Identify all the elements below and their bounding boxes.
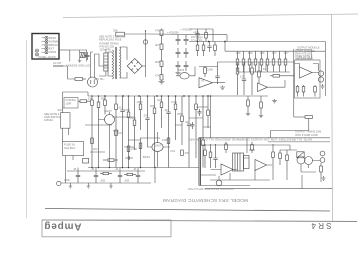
resistor R15	[278, 51, 281, 72]
reverb section enclosure left edge	[199, 138, 201, 186]
wire link2	[112, 116, 134, 118]
svg-text:115VAC: 115VAC	[44, 118, 53, 122]
svg-text:100K: 100K	[137, 100, 143, 104]
wire amp internal	[295, 64, 322, 77]
node I	[197, 41, 199, 43]
svg-text:.047: .047	[185, 120, 191, 124]
resistor R26	[91, 96, 94, 168]
node rail dots upper	[91, 95, 211, 97]
ground	[159, 80, 165, 84]
line filter block	[104, 53, 108, 71]
svg-text:PANEL JACKS: PANEL JACKS	[39, 55, 57, 59]
resistor R40	[78, 100, 90, 103]
capacitor C4	[184, 35, 189, 45]
resistor R41	[83, 159, 89, 164]
svg-text:12V: 12V	[240, 75, 245, 79]
resistor R38	[202, 96, 205, 168]
resistor R51	[260, 96, 263, 114]
title block box	[42, 220, 171, 237]
ground	[272, 99, 277, 103]
capacitor C15	[94, 171, 98, 183]
resistor R4	[160, 61, 163, 75]
jack J6	[36, 49, 39, 52]
resistor R2	[160, 29, 163, 45]
node rail dots	[91, 167, 156, 169]
wire filter leads	[99, 49, 106, 76]
ground	[175, 71, 180, 75]
node C	[104, 95, 106, 97]
svg-text:HTSINK REQ: HTSINK REQ	[297, 56, 313, 60]
svg-text:21.5V: 21.5V	[196, 36, 203, 40]
resistor R34	[160, 96, 163, 128]
svg-text:SPKR: SPKR	[49, 50, 56, 54]
resistor R9	[242, 51, 245, 72]
wire to reverb	[271, 118, 309, 137]
transistor Q3	[297, 156, 305, 164]
svg-text:BRIGHT: BRIGHT	[49, 43, 59, 47]
resistor R16	[284, 51, 287, 72]
op-amp U3	[300, 67, 313, 78]
resistor R58	[139, 143, 142, 149]
node bridge center	[134, 65, 136, 67]
resistor R6	[196, 42, 199, 57]
wire sub links	[189, 107, 211, 127]
wire U1 out	[213, 82, 226, 84]
page right edge	[332, 14, 333, 221]
resistor R61	[91, 138, 94, 144]
op-amp U2	[258, 83, 268, 92]
resistor R60	[181, 150, 184, 156]
svg-text:4K7: 4K7	[284, 51, 289, 55]
resistor R23	[302, 85, 305, 97]
wire top of caps	[67, 170, 145, 172]
reverb section enclosure top	[199, 137, 330, 139]
resistor R27	[97, 96, 100, 168]
svg-text:SR4: SR4	[309, 221, 331, 230]
plug prongs	[91, 80, 94, 84]
resistor R39	[207, 96, 210, 128]
ground	[220, 86, 225, 90]
ground	[259, 114, 263, 118]
op-amp U5	[255, 160, 267, 171]
node H	[207, 95, 209, 97]
svg-text:+24V: +24V	[193, 30, 199, 34]
resistor R19	[251, 62, 254, 95]
svg-text:+ 470/35V: + 470/35V	[167, 31, 179, 35]
wire preamp ground rail	[88, 167, 199, 169]
wire U4 leads	[211, 169, 238, 171]
resistor R25	[305, 116, 313, 119]
node G	[183, 95, 185, 97]
resistor R55	[75, 78, 86, 81]
svg-text:10K: 10K	[236, 51, 241, 55]
svg-text:4K7: 4K7	[155, 43, 160, 47]
resistor R62	[100, 172, 112, 174]
capacitor C22	[198, 109, 202, 116]
svg-text:VOLTAGES MEASURED WITH VTVM: VOLTAGES MEASURED WITH VTVM	[187, 187, 234, 191]
resistor R63	[124, 173, 136, 175]
wire R1 to rail	[124, 30, 150, 34]
ground lug	[109, 183, 113, 188]
resistor R50	[247, 96, 250, 112]
wire rail stubs	[78, 168, 138, 172]
wire B+ rail	[189, 42, 325, 97]
reverb section enclosure top inner	[268, 141, 330, 143]
svg-text:470K: 470K	[124, 108, 130, 112]
ground	[321, 84, 325, 88]
wire secondary top	[120, 47, 127, 60]
svg-text:470K: 470K	[131, 147, 137, 151]
svg-text:NOTE: ALL RESISTORS 1/2W 10% U: NOTE: ALL RESISTORS 1/2W 10% UNLESS OTHE…	[188, 137, 312, 141]
wire switch drop	[63, 92, 89, 142]
svg-text:1M: 1M	[88, 97, 92, 101]
capacitor C1	[176, 35, 181, 45]
tube V3	[152, 143, 163, 152]
node F	[156, 95, 158, 97]
wire line cord	[91, 52, 100, 78]
wire link1	[85, 124, 112, 126]
wire preamp B+ rail	[88, 95, 268, 97]
svg-text:.047: .047	[143, 114, 149, 118]
resistor R12	[260, 51, 263, 72]
resistor R8	[236, 51, 239, 72]
capacitor C6	[184, 61, 189, 71]
resistor R21	[270, 75, 295, 78]
resistor R35	[174, 96, 177, 140]
capacitor C9	[242, 62, 246, 95]
wire output stage	[280, 145, 320, 172]
jack J4	[45, 47, 48, 50]
power switch S1	[61, 113, 71, 129]
ground lug	[69, 183, 73, 188]
jack J2	[45, 40, 48, 43]
svg-text:.02: .02	[118, 106, 122, 110]
lamp DS1	[216, 180, 222, 186]
AC receptacle J8	[57, 181, 61, 185]
node E	[138, 95, 140, 97]
wire amp feed	[293, 49, 295, 117]
op-amp U1	[199, 78, 213, 88]
transformer T1 primary	[112, 50, 113, 79]
resistor R42	[204, 144, 207, 168]
output jack J10	[320, 158, 325, 163]
capacitor C17	[136, 171, 140, 183]
svg-text:6V: 6V	[263, 67, 266, 71]
transformer T1 secondary	[120, 47, 121, 78]
resistor R5	[160, 75, 163, 81]
capacitor C8	[215, 62, 219, 84]
wire top rail	[150, 34, 227, 42]
svg-text:250K: 250K	[130, 116, 136, 120]
capacitor C3	[176, 61, 181, 71]
svg-text:68K: 68K	[101, 97, 106, 101]
resistor R30	[127, 96, 130, 168]
svg-text:OUTPUT TRANS 22W: OUTPUT TRANS 22W	[295, 130, 322, 134]
jack J1	[45, 36, 48, 39]
resistor R48	[205, 29, 208, 42]
wire amp out down	[294, 116, 305, 118]
wire preamp to reverb	[210, 96, 212, 138]
transistor Q4	[305, 157, 313, 165]
wire AC run	[61, 182, 151, 184]
resistor R43	[209, 144, 212, 168]
page bottom rule	[42, 220, 357, 222]
power amp circuit box	[295, 60, 321, 98]
fuse holder box	[63, 142, 84, 156]
capacitor C18	[213, 144, 217, 168]
svg-text:.005: .005	[100, 179, 106, 183]
svg-text:470: 470	[155, 29, 160, 33]
capacitor C14	[76, 171, 80, 183]
svg-text:SW1: SW1	[58, 108, 64, 112]
svg-text:.005: .005	[124, 179, 130, 183]
svg-text:100R: 100R	[66, 103, 72, 106]
wire reverb wiring	[201, 138, 290, 180]
wire mains to primary	[99, 52, 112, 76]
capacitor C21	[125, 156, 133, 160]
svg-text:.01: .01	[91, 167, 95, 171]
ground	[246, 112, 250, 116]
jack tie marks	[42, 38, 46, 52]
resistor R37	[195, 96, 198, 158]
svg-text:NORMAL: NORMAL	[49, 39, 61, 43]
resistor R10	[248, 51, 251, 72]
driver block	[297, 152, 304, 158]
transistor Q2	[318, 77, 323, 82]
svg-text:EXT: EXT	[49, 47, 54, 51]
resistor R14	[272, 51, 275, 72]
resistor R13	[266, 51, 269, 72]
input panel box	[32, 34, 59, 60]
resistor R59	[167, 138, 170, 144]
capacitor C12	[166, 96, 170, 168]
svg-text:+ 470/35V: + 470/35V	[180, 28, 192, 32]
wire fuse leads	[66, 156, 74, 184]
svg-text:MODEL SR4 SCHEMATIC DIAGRAM: MODEL SR4 SCHEMATIC DIAGRAM	[163, 197, 248, 203]
capacitor C20	[86, 52, 90, 60]
svg-text:33K: 33K	[113, 29, 118, 33]
wire bridge plus	[142, 65, 145, 67]
ground lug	[87, 183, 91, 188]
resistor R11	[254, 51, 257, 72]
output jack J9	[320, 151, 325, 156]
wire drop to AC run	[154, 168, 156, 184]
wire filament drop	[70, 50, 87, 62]
svg-text:1M: 1M	[118, 131, 122, 135]
reverb section enclosure bottom	[199, 186, 332, 189]
svg-text:100K: 100K	[162, 138, 168, 142]
resistor R32	[139, 96, 142, 168]
wire panel output	[59, 49, 70, 51]
resistor R33	[153, 96, 156, 168]
wire secondary bottom	[120, 72, 127, 78]
ground	[322, 176, 326, 180]
svg-text:GND: GND	[64, 178, 70, 182]
bias network box	[64, 98, 78, 109]
capacitor C19	[195, 29, 199, 42]
wire rail2 drop	[224, 42, 226, 52]
resistor R3	[160, 44, 163, 61]
node A	[208, 41, 210, 43]
capacitor C23	[191, 122, 195, 129]
resistor R49	[214, 42, 217, 57]
wire mid links	[90, 125, 182, 152]
transistor Q1	[318, 71, 323, 76]
rectifier bridge D1-D4	[127, 59, 142, 74]
page top edge	[63, 14, 358, 18]
schematic frame bottom border	[45, 209, 330, 212]
wire V3 leads	[148, 132, 171, 168]
resistor R56	[115, 130, 118, 136]
resistor R54	[103, 159, 118, 162]
svg-text:470K: 470K	[171, 100, 177, 104]
wire V2 leads	[99, 112, 110, 168]
jack J7	[36, 53, 39, 56]
resistor R18	[236, 62, 239, 95]
resistor R31	[133, 96, 136, 150]
resistor R24	[314, 85, 317, 97]
svg-text:47K: 47K	[185, 151, 190, 155]
wire +24 feed	[190, 29, 213, 42]
svg-text:6AV6: 6AV6	[178, 68, 185, 72]
AC plug P1	[88, 77, 98, 87]
wire B+ vertical	[145, 30, 147, 77]
resistor R44	[279, 150, 282, 165]
svg-text:BASS: BASS	[143, 155, 150, 159]
svg-text:Ampeg: Ampeg	[44, 221, 82, 232]
node B	[224, 41, 226, 43]
capacitor C11	[145, 96, 149, 140]
transformer T1 core	[115, 47, 116, 79]
resistor R47	[320, 163, 323, 176]
choke L1	[80, 53, 85, 58]
svg-text:250K: 250K	[177, 112, 183, 116]
power amp module notes box	[296, 50, 312, 60]
svg-text:4K7: 4K7	[272, 51, 277, 55]
capacitor C13	[187, 96, 191, 168]
capacitor C10	[120, 96, 124, 168]
pilot lamp I1	[143, 40, 147, 44]
svg-text:12AX7: 12AX7	[104, 109, 112, 113]
svg-text:OUTPUT MODULE: OUTPUT MODULE	[297, 46, 320, 50]
page left edge	[26, 40, 28, 218]
svg-text:A1: A1	[201, 79, 205, 83]
svg-text:.01: .01	[133, 167, 137, 171]
jack J5	[45, 51, 48, 54]
wire V1 leads	[176, 67, 195, 76]
resistor R29	[115, 96, 118, 168]
wire enclosure bottom wiring	[210, 168, 321, 189]
svg-text:115V PRI: 115V PRI	[100, 48, 111, 52]
resistor R57	[127, 146, 130, 152]
svg-text:BASS: BASS	[49, 36, 56, 40]
tube V2	[105, 115, 115, 125]
svg-text:10K: 10K	[248, 51, 253, 55]
resistor R17	[204, 67, 207, 78]
svg-text:1M: 1M	[157, 98, 161, 102]
resistor R28	[104, 96, 107, 115]
svg-text:.01: .01	[73, 167, 77, 171]
capacitor C16	[118, 171, 122, 183]
reverb driver transformer T2	[233, 153, 250, 171]
svg-text:117V 60~: 117V 60~	[94, 77, 105, 81]
capacitor C2	[176, 48, 181, 58]
svg-text:6K8: 6K8	[155, 60, 160, 64]
wire op-amp top	[199, 66, 218, 68]
svg-text:CHASSIS GND LUG: CHASSIS GND LUG	[66, 64, 90, 68]
svg-text:SOCKET: SOCKET	[53, 64, 64, 68]
svg-text:.01: .01	[115, 167, 119, 171]
ground	[78, 58, 81, 63]
capacitor C7	[207, 42, 211, 53]
svg-text:10K: 10K	[260, 51, 265, 55]
jack J3	[45, 44, 48, 47]
resistor R1	[116, 32, 125, 36]
svg-text:47K: 47K	[155, 74, 160, 78]
svg-text:12AX7: 12AX7	[154, 143, 162, 147]
jack center pins	[36, 37, 47, 55]
wire U2 out	[266, 62, 285, 87]
wire interstage	[218, 61, 294, 63]
resistor R7	[202, 42, 205, 57]
tube V1	[180, 73, 189, 79]
resistor R36	[181, 96, 184, 145]
svg-text:FUSE 2A: FUSE 2A	[64, 143, 75, 147]
wire screen rail	[225, 50, 325, 52]
resistor R20	[258, 62, 261, 83]
resistor R52	[225, 142, 228, 153]
svg-text:REPLACING FUSE: REPLACING FUSE	[99, 38, 122, 42]
capacitor C5	[184, 48, 189, 58]
resistor R45	[286, 150, 289, 170]
resistor R46	[272, 144, 275, 168]
op-amp U4	[221, 164, 233, 175]
svg-text:.02: .02	[164, 108, 168, 112]
svg-text:56K: 56K	[150, 104, 155, 108]
wire bias feed	[53, 66, 75, 79]
wire screen row bus	[238, 71, 291, 73]
svg-text:2K2: 2K2	[93, 147, 98, 151]
svg-text:VOL: VOL	[170, 149, 176, 153]
svg-text:100K: 100K	[207, 68, 213, 72]
svg-text:SLO-BLO: SLO-BLO	[64, 146, 75, 150]
resistor R53	[251, 142, 254, 153]
node D	[122, 95, 124, 97]
svg-text:INTO 8 OHM LOAD: INTO 8 OHM LOAD	[295, 133, 318, 137]
resistor R22	[296, 85, 299, 97]
